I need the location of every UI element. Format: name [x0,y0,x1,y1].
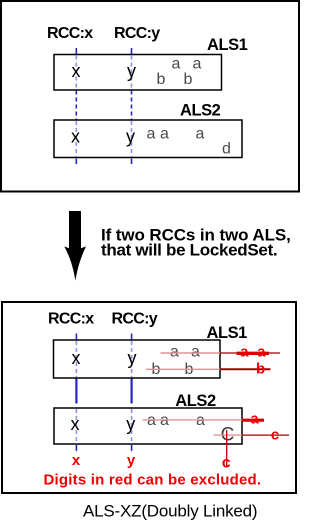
annotation text line 2 [101,240,277,259]
candidate x in ALS1 (bottom) [72,348,81,368]
box ALS1 (top) [54,55,222,91]
box ALS2 (top) [54,120,242,158]
svg-text:ALS1: ALS1 [207,36,248,54]
box ALS2 (bottom) [54,408,242,444]
label ALS2 (top) [180,102,221,120]
red note: Digits in red can be excluded. [44,472,262,489]
blue link line y column (bottom panel) [131,334,133,452]
svg-text:a: a [170,344,179,361]
excluded red candidate c (right of ALS2) [271,427,279,444]
svg-text:RCC:y: RCC:y [112,311,158,328]
candidates a a in ALS1 (bottom) [170,344,200,361]
svg-text:a: a [147,126,156,143]
svg-text:RCC:x: RCC:x [48,311,94,328]
candidate y in ALS1 (bottom) [128,348,137,368]
excluded red candidate x (below panel) [72,452,81,469]
svg-text:y: y [127,452,136,469]
label RCC:y (top) [114,25,160,42]
svg-text:a: a [193,56,202,73]
svg-text:a: a [250,411,259,428]
red strike line through b b (ALS1 bottom, inside box) [146,368,220,370]
red strike line through a a (ALS1 bottom, outside box) [220,352,280,354]
excluded red candidate b (right of ALS1) [256,361,265,378]
blue link line x column (bottom panel) [75,334,77,452]
box ALS1 (bottom) [54,340,221,378]
svg-text:RCC:x: RCC:x [47,25,93,42]
label RCC:y (bottom) [112,311,158,328]
candidates a a a in ALS2 (bottom) [147,412,205,429]
svg-text:b: b [157,71,166,88]
svg-text:ALS-XZ(Doubly Linked): ALS-XZ(Doubly Linked) [83,502,257,521]
svg-text:a: a [257,343,266,360]
candidate x in ALS2 (top) [71,127,80,147]
caption ALS-XZ(Doubly Linked) [83,502,257,521]
svg-text:a: a [240,343,249,360]
candidate C in ALS2 (bottom) [221,425,235,446]
svg-text:x: x [72,61,81,81]
thick red strike through red a a [237,352,270,355]
svg-text:d: d [222,140,231,157]
svg-text:a: a [191,344,200,361]
candidates b b in ALS1 (top) [157,71,193,88]
excluded red candidate a (right of ALS2) [250,411,259,428]
dashed blue line x column (top panel) [75,48,77,164]
svg-text:b: b [184,71,193,88]
svg-text:x: x [71,127,80,147]
red vertical line through C down to c [226,430,228,466]
svg-text:y: y [126,414,135,434]
red strike line through a a (ALS1 bottom, inside box) [161,352,221,354]
svg-text:x: x [72,348,81,368]
svg-text:x: x [71,414,80,434]
label ALS1 (bottom) [207,324,248,342]
label RCC:x (bottom) [48,311,94,328]
excluded red candidate y (below panel) [127,452,136,469]
svg-text:c: c [222,455,231,472]
svg-text:a: a [160,126,169,143]
svg-text:that will be LockedSet.: that will be LockedSet. [101,240,277,259]
red strike line through C (ALS2 bottom, inside box) [214,434,242,436]
svg-text:y: y [126,127,135,147]
candidate x in ALS2 (bottom) [71,414,80,434]
excluded red candidate c (below ALS2) [222,455,231,472]
excluded red candidates a a (right of ALS1) [240,343,266,360]
candidates a a in ALS1 (top) [172,56,202,73]
svg-text:a: a [196,126,205,143]
candidates a a a in ALS2 (top) [147,126,205,143]
svg-text:Digits in red can be excluded.: Digits in red can be excluded. [44,472,262,489]
candidate y in ALS1 (top) [127,61,136,81]
label ALS2 (bottom) [175,392,216,410]
label ALS1 (top) [207,36,248,54]
big down arrow [64,211,86,281]
bottom panel frame [2,302,296,493]
annotation text line 1 [101,225,291,244]
svg-text:x: x [72,452,81,469]
red strike line through b (ALS1 bottom, outside box) [220,368,271,370]
top panel frame [1,1,299,192]
candidates b b in ALS1 (bottom) [152,361,194,378]
red strike line through a a a (ALS2 bottom, inside box) [143,419,242,421]
red strike line through c (outside box, right) [242,434,289,436]
svg-text:ALS2: ALS2 [180,102,221,120]
label RCC:x (top) [47,25,93,42]
dashed blue line y column (top panel) [131,48,133,164]
svg-text:y: y [128,348,137,368]
candidate d in ALS2 (top) [222,140,231,157]
svg-text:RCC:y: RCC:y [114,25,160,42]
thick red strike through red a (right of ALS2) [242,419,264,422]
svg-text:c: c [271,427,279,444]
candidate y in ALS2 (top) [126,127,135,147]
svg-text:b: b [256,361,265,378]
svg-text:a: a [172,56,181,73]
candidate y in ALS2 (bottom) [126,414,135,434]
candidate x in ALS1 (top) [72,61,81,81]
svg-text:y: y [127,61,136,81]
